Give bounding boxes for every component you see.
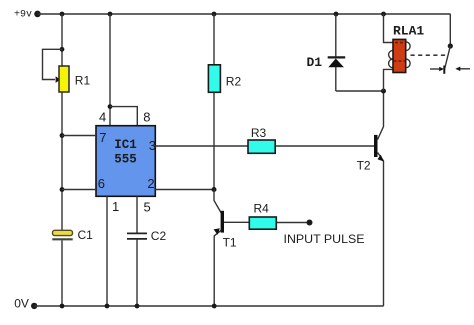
wire pin3 to R3 <box>155 145 248 147</box>
node D1-relay-T2 junction <box>381 89 386 94</box>
wire pin8 bracket <box>110 107 137 126</box>
transistor T2 <box>374 91 384 306</box>
wire R2 to trigger node <box>213 92 215 189</box>
node rail-pin4 <box>108 12 113 17</box>
svg-text:2: 2 <box>147 176 154 191</box>
terminal dot 0V <box>31 303 37 309</box>
node rail-R1 <box>60 12 65 17</box>
svg-text:555: 555 <box>114 152 137 166</box>
svg-text:7: 7 <box>99 130 106 145</box>
svg-text:R3: R3 <box>251 126 267 140</box>
node rail-R2 <box>212 12 217 17</box>
node pin4/8 tie <box>108 104 113 109</box>
svg-text:8: 8 <box>143 109 150 124</box>
svg-text:RLA1: RLA1 <box>393 23 424 38</box>
capacitor C2 <box>127 233 147 239</box>
arrow contact right <box>455 67 470 72</box>
node pin6 junction <box>60 187 65 192</box>
diode D1 <box>328 57 346 91</box>
capacitor C1 <box>52 230 72 239</box>
node pin7 junction <box>60 133 65 138</box>
svg-text:1: 1 <box>112 199 119 214</box>
wire right rail drop to relay contact <box>449 14 451 46</box>
wire C2 to ground <box>136 239 138 306</box>
contact fixed bar <box>443 66 445 74</box>
node gnd-T1 <box>212 304 217 309</box>
svg-text:C1: C1 <box>78 228 94 242</box>
svg-text:4: 4 <box>99 109 106 124</box>
relay coil RLA1 <box>389 39 411 72</box>
wire pin6 to left node <box>62 189 96 191</box>
svg-text:6: 6 <box>98 176 105 191</box>
terminal dot input <box>307 220 313 226</box>
node gnd-C1 <box>60 304 65 309</box>
wire D1 branch from rail <box>335 14 337 56</box>
svg-text:C2: C2 <box>151 229 167 243</box>
wire pin1 to ground <box>106 196 108 306</box>
svg-text:0V: 0V <box>14 296 29 310</box>
svg-text:R4: R4 <box>254 202 270 216</box>
node rail-relay <box>381 12 386 17</box>
resistor R3 <box>248 140 275 153</box>
arrow contact left <box>430 67 444 72</box>
svg-text:T2: T2 <box>357 159 371 173</box>
wire pin5 to C2 <box>136 196 138 233</box>
wire R4 to input terminal <box>276 222 309 224</box>
svg-text:5: 5 <box>144 200 151 215</box>
svg-text:R1: R1 <box>75 73 91 87</box>
wire R1 branch from rail <box>61 14 63 66</box>
wire dashed mechanical link <box>411 54 447 56</box>
terminal dot +9v <box>34 11 41 18</box>
resistor R1 <box>59 66 69 92</box>
wire R1 bottom to C1 <box>61 92 63 230</box>
wire R2 branch from rail <box>213 14 215 65</box>
svg-text:3: 3 <box>149 138 156 153</box>
node gnd-C2 <box>135 304 140 309</box>
wire relay branch from rail <box>384 14 394 43</box>
node gnd-pin1 <box>105 304 110 309</box>
wire pin7 to left node <box>62 135 96 137</box>
node R1 wiper tap <box>60 47 65 52</box>
wire contact armature <box>444 46 450 71</box>
svg-text:D1: D1 <box>307 55 323 70</box>
wire pin2 to trigger node <box>155 189 214 191</box>
wire D1 bottom to relay branch <box>336 90 384 92</box>
svg-text:IC1: IC1 <box>114 138 137 152</box>
transistor T1 <box>214 190 249 307</box>
wire bottom 0V rail <box>34 305 383 307</box>
wire relay bottom stub <box>384 69 394 91</box>
node contact pivot <box>448 43 453 48</box>
wire R1 wiper loop <box>43 49 63 79</box>
wire R3 to T2 base <box>275 145 374 147</box>
svg-text:T1: T1 <box>223 236 237 250</box>
svg-text:R2: R2 <box>226 74 242 88</box>
wire pin4/8 branch <box>109 14 111 126</box>
arrow R1 wiper <box>56 76 61 83</box>
resistor R4 <box>249 217 276 229</box>
svg-text:INPUT PULSE: INPUT PULSE <box>284 232 365 246</box>
resistor R2 <box>208 65 220 93</box>
node rail-D1 <box>334 12 339 17</box>
wire C1 to 0V rail <box>61 240 63 306</box>
op-amp IC1 555 body <box>96 126 155 197</box>
svg-text:+9v: +9v <box>14 10 32 21</box>
node trigger junction <box>212 187 217 192</box>
wire top +9V rail <box>38 13 451 15</box>
